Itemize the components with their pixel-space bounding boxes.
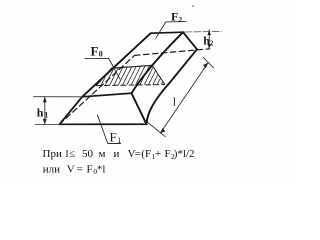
h2 dimension top reference line — [185, 31, 222, 34]
label h1 — [37, 106, 49, 120]
l arrow lower (points down-left) — [160, 128, 165, 133]
label F1 — [110, 130, 122, 145]
back face top edge H-G — [151, 32, 183, 33]
front face right slope C-B — [132, 93, 147, 124]
svg-text:2: 2 — [178, 15, 182, 24]
h2 arrow up — [208, 30, 211, 35]
label F0 — [91, 44, 103, 59]
label F2 — [171, 10, 182, 24]
svg-text:F: F — [91, 44, 99, 59]
svg-text:0: 0 — [99, 50, 103, 59]
l dimension extension stub at F end — [203, 58, 213, 68]
bottom face right edge F-B — [147, 49, 198, 124]
top face right edge C-G — [132, 32, 184, 93]
svg-text:1: 1 — [117, 136, 121, 145]
svg-text:l: l — [173, 95, 177, 109]
h1 dimension vertical line — [44, 97, 46, 125]
front face bottom edge A-B — [60, 123, 147, 125]
scan speck near F2 — [192, 5, 194, 7]
leader line of F2 with underline — [156, 22, 186, 39]
leader line of F0 with underline — [85, 58, 120, 79]
hidden back bottom edge E-F extended to h2 reference (dashed) — [135, 49, 210, 56]
h1 dimension bottom reference line — [35, 123, 60, 125]
middle section F0 left slope — [96, 68, 111, 85]
l dimension line — [160, 63, 208, 134]
middle section F0 top edge (on top face) — [112, 65, 153, 68]
svg-text:F: F — [171, 10, 178, 24]
l arrow upper (points up-right) — [203, 63, 208, 69]
svg-text:1: 1 — [44, 110, 48, 119]
h2 arrow down — [208, 44, 211, 49]
l dimension extension stub at B end — [148, 123, 165, 137]
h1 arrow up — [43, 97, 47, 103]
svg-text:F: F — [110, 130, 117, 145]
svg-text:2: 2 — [210, 39, 214, 47]
hidden bottom-left edge A-E (dashed) — [60, 55, 135, 124]
hatching of middle cross-section F0 — [90, 66, 175, 90]
svg-text:Приl≤50миV=(F1+F2)*l/2: Приl≤50миV=(F1+F2)*l/2 — [43, 148, 195, 161]
middle section F0 bottom edge (hidden, dashed) — [96, 85, 164, 86]
h1 arrow down — [43, 119, 47, 125]
label h2 — [203, 34, 214, 48]
back face right slope G-F — [183, 32, 197, 49]
svg-text:илиV=F0*l: илиV=F0*l — [43, 163, 106, 176]
front face top edge D-C — [82, 93, 131, 97]
front face left slope A-D — [60, 97, 83, 125]
top face left edge D-H — [82, 33, 151, 97]
leader line of F1 with underline — [97, 115, 120, 144]
h2 dimension vertical line — [208, 30, 210, 49]
middle section F0 right slope — [152, 65, 164, 84]
h1 dimension top reference line — [34, 96, 83, 98]
svg-text:h: h — [37, 106, 44, 120]
